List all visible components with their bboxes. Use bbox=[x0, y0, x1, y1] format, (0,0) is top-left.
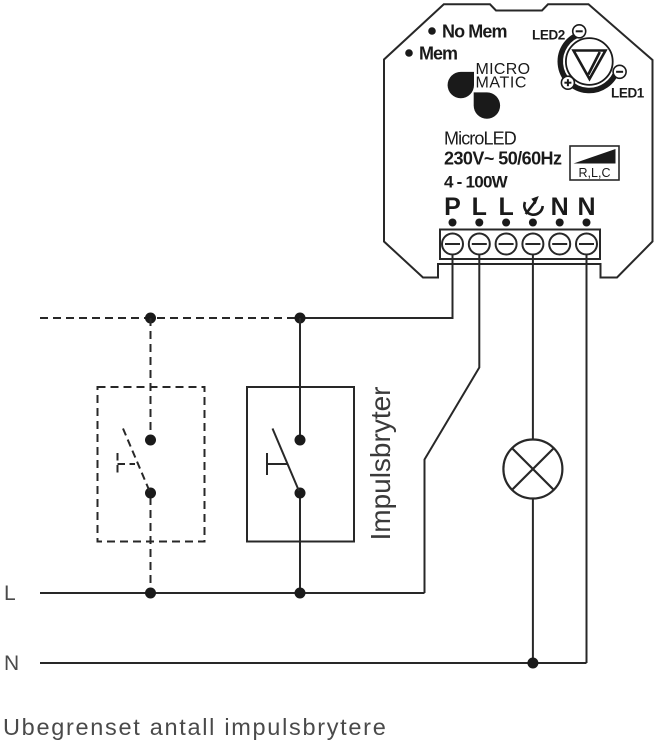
svg-text:No Mem: No Mem bbox=[442, 22, 507, 42]
wire: L terminal to L line bbox=[425, 254, 480, 593]
optional switch S2 lever bbox=[123, 429, 150, 492]
node junction dot L line / impulse switch bbox=[295, 588, 306, 599]
svg-text:R,L,C: R,L,C bbox=[579, 166, 611, 180]
svg-text:230V~ 50/60Hz: 230V~ 50/60Hz bbox=[444, 149, 562, 169]
optional switch S2 dashed box bbox=[98, 387, 205, 542]
terminal screw 2 (L) bbox=[469, 234, 490, 255]
svg-text:4 - 100W: 4 - 100W bbox=[444, 173, 509, 192]
wire: N terminal down to N line bbox=[586, 254, 588, 663]
svg-text:Mem: Mem bbox=[419, 44, 457, 64]
svg-text:L: L bbox=[472, 193, 487, 221]
wire: solid P line to terminal P bbox=[300, 254, 453, 318]
Micro Matic logo blob 2 bbox=[474, 92, 500, 118]
lamp E1 bbox=[503, 440, 562, 499]
svg-text:L: L bbox=[498, 193, 513, 221]
wire: drop from P line into impulse switch bbox=[299, 318, 301, 440]
svg-text:N: N bbox=[577, 193, 595, 221]
svg-text:L: L bbox=[4, 582, 16, 605]
label No Mem bbox=[428, 27, 436, 35]
svg-text:N: N bbox=[551, 193, 569, 221]
impulse switch S1 contacts bbox=[295, 435, 306, 446]
terminal screw 4 (dimmed output) bbox=[522, 234, 543, 255]
terminal screw 6 (N) bbox=[576, 234, 597, 255]
optional switch S2 actuator bbox=[118, 453, 136, 475]
dimmer device U1 outline bbox=[384, 4, 653, 277]
terminal screw 3 (L) bbox=[496, 234, 517, 255]
optional switch S2 contacts bbox=[145, 435, 156, 446]
wire: lamp to N line bbox=[532, 499, 534, 664]
terminal screw 1 (P) bbox=[442, 234, 463, 255]
wire: dashed drop from P line into dashed switch bbox=[150, 318, 152, 436]
svg-text:Ubegrenset antall impulsbryter: Ubegrenset antall impulsbrytere bbox=[3, 714, 387, 740]
svg-text:P: P bbox=[444, 193, 461, 221]
svg-text:LED1: LED1 bbox=[611, 86, 645, 101]
R,L,C ramp triangle bbox=[574, 149, 616, 164]
terminal label dimmed-output symbol bbox=[524, 201, 542, 214]
node junction dot on P line (dashed switch) bbox=[145, 313, 156, 324]
Micro Matic logo blob 1 bbox=[448, 72, 474, 98]
node junction dot L line / dashed switch bbox=[145, 588, 156, 599]
node junction dot on P line (impulse switch) bbox=[295, 313, 306, 324]
impulse switch S1 box bbox=[247, 387, 354, 542]
knob triangle logo bbox=[574, 51, 606, 80]
N line bbox=[40, 662, 587, 664]
svg-text:MATIC: MATIC bbox=[476, 75, 528, 92]
wire: dashed P line left section bbox=[40, 317, 300, 319]
L line bbox=[40, 592, 425, 594]
minus circle top (LED2) bbox=[573, 25, 586, 38]
label Mem bbox=[405, 49, 413, 57]
node junction dot N line / lamp bbox=[527, 658, 538, 669]
svg-text:Impulsbryter: Impulsbryter bbox=[365, 386, 396, 540]
wire: dashed drop from dashed switch to L line bbox=[150, 497, 152, 593]
minus circle right (LED1) bbox=[613, 65, 626, 78]
terminal pin dots bbox=[449, 219, 591, 227]
wire: lamp feed from dimmed output terminal bbox=[532, 254, 534, 440]
terminal screw 5 (N) bbox=[549, 234, 570, 255]
plus circle bbox=[561, 76, 574, 89]
impulse switch S1 lever bbox=[273, 429, 300, 492]
svg-text:LED2: LED2 bbox=[532, 28, 565, 43]
impulse switch S1 actuator bbox=[267, 453, 287, 475]
dimmer dial thick arc bbox=[560, 34, 617, 91]
wire: drop from impulse switch to L line bbox=[299, 493, 301, 593]
terminal block bbox=[440, 230, 600, 260]
svg-text:N: N bbox=[4, 652, 19, 675]
dial knob circle bbox=[566, 38, 613, 85]
R,L,C load-type box bbox=[570, 146, 619, 180]
svg-text:MicroLED: MicroLED bbox=[444, 129, 517, 149]
